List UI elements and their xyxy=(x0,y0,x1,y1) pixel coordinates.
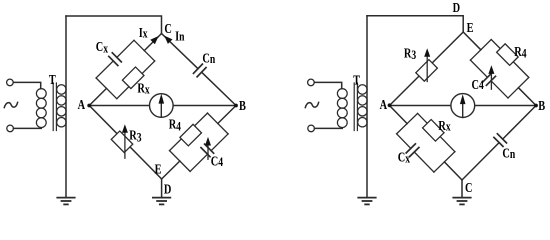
wire primary bottom lead xyxy=(14,127,42,129)
wire primary top lead xyxy=(13,82,40,88)
svg-text:B: B xyxy=(538,98,545,114)
capacitor Cn plates xyxy=(194,64,207,77)
capacitor C4 (right ckt) xyxy=(470,60,508,98)
resistor Rx (right ckt) xyxy=(423,119,445,141)
transformer T2 primary winding xyxy=(337,89,347,128)
node B dot xyxy=(234,104,238,108)
svg-text:D: D xyxy=(164,181,172,197)
wire secondary riser up (right ckt) xyxy=(366,16,368,197)
wire detector to B xyxy=(173,105,236,107)
capacitor Cn with wires C to B (right ckt) xyxy=(462,106,536,181)
node B dot (right ckt) xyxy=(534,104,538,108)
resistor Rx branch line (right ckt) xyxy=(418,113,455,151)
arrow of variable R3 (right ckt) xyxy=(426,56,428,82)
arrow of variable C4 xyxy=(207,144,209,159)
wire C to combo exit xyxy=(144,34,161,51)
svg-text:R3: R3 xyxy=(129,127,142,145)
svg-text:R3: R3 xyxy=(404,45,417,62)
capacitor C4 xyxy=(190,134,228,172)
svg-text:Cn: Cn xyxy=(202,50,215,66)
svg-text:A: A xyxy=(380,97,388,113)
resistor R4 branch line xyxy=(170,113,208,151)
svg-text:D: D xyxy=(453,0,461,15)
combo Rx/Cx short side lower-right xyxy=(434,152,455,172)
arrow of variable C4 (right ckt) xyxy=(490,73,492,89)
svg-text:Rx: Rx xyxy=(137,80,150,97)
svg-text:T: T xyxy=(49,72,57,88)
capacitor Cx (right ckt) xyxy=(397,134,434,172)
svg-text:Cx: Cx xyxy=(96,39,109,56)
resistor R4 xyxy=(180,124,202,146)
wire detector to B (right ckt) xyxy=(475,105,536,107)
combo Rx/Cx short side upper-left xyxy=(397,113,418,133)
wire combo exit to node C (right ckt) xyxy=(444,162,462,180)
svg-text:C: C xyxy=(465,179,472,195)
wire primary bottom lead (right ckt) xyxy=(315,127,343,129)
wire A to detector (right ckt) xyxy=(390,105,451,107)
terminal top-left xyxy=(7,79,14,86)
capacitor Cn plates (right ckt) xyxy=(494,134,507,147)
svg-text:R4: R4 xyxy=(514,44,527,61)
ground (bridge E) xyxy=(153,198,170,205)
transformer T1 secondary winding xyxy=(57,85,66,127)
wire secondary riser up xyxy=(65,16,67,197)
current arrow Ix xyxy=(150,36,158,44)
wire A to E with resistor R3 (right ckt) xyxy=(390,32,464,106)
svg-text:A: A xyxy=(78,97,86,113)
combo R4/C4 short side upper-right xyxy=(208,113,229,134)
wire A to combo entry (right ckt lower) xyxy=(390,106,408,124)
capacitor Cn with wires C to B xyxy=(162,34,237,106)
svg-text:B: B xyxy=(239,98,246,114)
ground (transformer) xyxy=(57,198,74,205)
svg-text:R4: R4 xyxy=(169,116,182,134)
ground (bridge C right ckt) xyxy=(453,198,470,205)
svg-text:E: E xyxy=(155,161,162,177)
terminal bottom-left xyxy=(7,125,14,132)
wire E to ground xyxy=(161,179,163,197)
terminal bottom-left (right ckt) xyxy=(308,125,315,132)
transformer T1 core xyxy=(53,83,56,131)
wire primary top lead (right ckt) xyxy=(314,82,341,88)
wire combo entry to node A xyxy=(89,88,106,105)
node A dot xyxy=(87,104,91,108)
resistor Rx xyxy=(122,67,144,89)
svg-text:Cn: Cn xyxy=(502,145,515,161)
wire A to detector xyxy=(89,105,149,107)
detector G1 xyxy=(150,94,174,118)
source tilde xyxy=(4,102,17,107)
detector G2 xyxy=(451,94,475,118)
resistor R3 (right ckt) xyxy=(416,60,438,82)
combo R4/C4 short side lower-left xyxy=(170,151,191,172)
wire combo exit to node B xyxy=(218,106,236,124)
svg-text:Ix: Ix xyxy=(139,24,148,41)
combo Cx/Rx short side upper-right xyxy=(134,40,155,61)
svg-text:T: T xyxy=(353,72,361,88)
source tilde (right ckt) xyxy=(305,102,318,107)
transformer T2 core xyxy=(354,83,357,131)
svg-text:C4: C4 xyxy=(472,77,485,93)
transformer T1 primary winding xyxy=(36,89,46,128)
node A dot (right ckt) xyxy=(388,103,392,107)
wire combo exit to node B (right ckt) xyxy=(518,88,536,106)
resistor R4 (right ckt) xyxy=(497,44,519,66)
resistor R3 xyxy=(111,131,133,153)
combo Cx/Rx short side lower-left xyxy=(96,78,117,99)
resistor Rx branch line xyxy=(117,61,155,99)
wire top to node E (right ckt) xyxy=(367,16,463,32)
combo R4/C4 short side upper-left xyxy=(470,40,491,61)
svg-text:C: C xyxy=(164,20,171,36)
current arrow In xyxy=(164,36,172,44)
resistor R4 branch line (right ckt) xyxy=(491,40,529,78)
combo R4/C4 short side lower-right xyxy=(508,77,529,98)
wire A to E with resistor R3 xyxy=(89,106,161,180)
terminal top-left (right ckt) xyxy=(308,79,315,86)
svg-text:C4: C4 xyxy=(211,153,224,169)
transformer T2 secondary winding xyxy=(358,85,367,127)
svg-text:In: In xyxy=(175,28,185,44)
ground (transformer right ckt) xyxy=(358,198,375,205)
capacitor Cx xyxy=(96,40,134,78)
wire E to combo entry xyxy=(162,161,180,179)
wire top to node C xyxy=(66,16,162,34)
wire C to ground (right ckt) xyxy=(461,180,463,197)
wire E to combo entry (right ckt) xyxy=(463,32,481,50)
svg-text:Rx: Rx xyxy=(438,118,451,134)
svg-text:E: E xyxy=(467,19,474,35)
arrow of variable R3 xyxy=(124,132,126,159)
